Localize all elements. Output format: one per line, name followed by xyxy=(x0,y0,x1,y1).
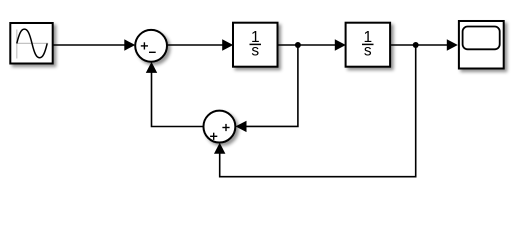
wire: integrator1 output to integrator2 input xyxy=(278,39,346,50)
junction node A (after integrator1) xyxy=(295,42,301,48)
sine wave source block xyxy=(10,23,52,64)
wire: node A down and left to sum2 right input xyxy=(236,45,298,132)
wire: sum1 output to integrator1 input xyxy=(167,39,233,50)
svg-text:s: s xyxy=(364,43,372,60)
integrator block U1 (1/s) xyxy=(233,23,278,67)
wire: integrator2 output to scope input xyxy=(390,39,458,50)
sum block sum1 (+ left, - bottom) xyxy=(135,30,167,62)
wire: sine source output to sum1 left input xyxy=(53,39,136,50)
wire: sum2 output left and up to sum1 bottom (minus) input xyxy=(146,62,204,127)
integrator block U2 (1/s) xyxy=(346,23,391,67)
junction node B (after integrator2) xyxy=(413,42,419,48)
svg-text:s: s xyxy=(251,43,259,60)
sum block sum2 (+ right, + bottom) xyxy=(203,111,235,143)
scope block xyxy=(459,21,504,69)
wire: node B down, left and up to sum2 bottom input xyxy=(214,45,416,177)
